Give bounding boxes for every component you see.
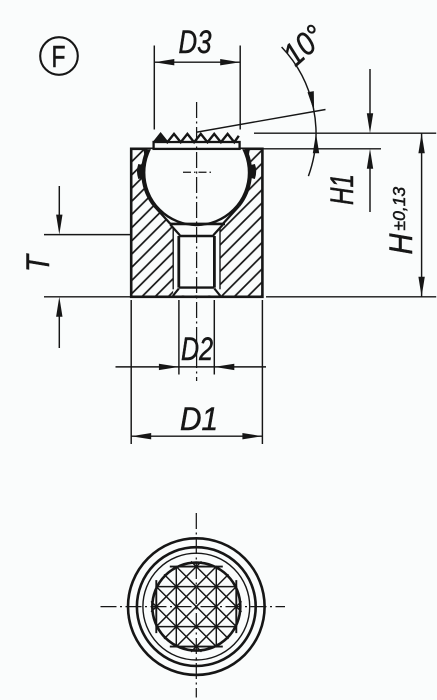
bottom chamfer right (214, 289, 220, 296)
serration teeth (154, 134, 239, 142)
serrated plate (154, 142, 240, 149)
bottom chamfer left (173, 289, 179, 296)
cavity (ball pocket + threaded bore, white) (142, 149, 251, 295)
cone seat left (154, 206, 171, 224)
arc arrow lower (onto horizontal line) (313, 133, 319, 153)
bore bottom line (179, 286, 215, 288)
svg-text:F: F (52, 39, 66, 74)
retainer crimp right (248, 164, 256, 179)
mesh diagonals SW-NE (151, 561, 241, 651)
pocket arc left (142, 149, 154, 206)
bottom view: outer circle (body) (128, 538, 265, 675)
pocket lip right (247, 149, 248, 157)
view label F (circled letter) (40, 37, 78, 75)
bottom view: serrated face circle (152, 563, 240, 651)
bore wall right (minor dia) (213, 236, 216, 288)
svg-text:H1: H1 (324, 174, 360, 205)
dimension angle 10deg (197, 18, 436, 176)
horizontal reference line (serration top extension) (254, 132, 436, 134)
mesh square edges (156, 567, 236, 647)
centermark horizontal (ball center) (183, 171, 211, 173)
pocket lip left (145, 149, 146, 157)
mesh verticals (176, 567, 216, 647)
cone seat right (223, 206, 240, 224)
thread start line (179, 235, 215, 237)
tilted tip-plane line (197, 110, 326, 133)
pocket arc right (239, 149, 251, 206)
bottom view vertical centerline (195, 513, 197, 698)
first tooth (filled) (154, 133, 168, 142)
centerline vertical (section view) (196, 102, 198, 381)
bottom view: second circle (137, 547, 256, 666)
dimension D2 (116, 300, 267, 375)
bottom view: third circle (thin) (143, 553, 250, 660)
svg-text:T: T (20, 253, 56, 272)
dimension D1 (131, 300, 262, 444)
bottom view horizontal centerline (101, 606, 286, 608)
retainer crimp left (137, 164, 145, 179)
serration mesh (top view of teeth) (151, 561, 241, 651)
dimension D3 (154, 24, 240, 130)
dimension H ±0,13 (266, 133, 436, 297)
bore wall left (minor dia) (177, 236, 180, 288)
mesh horizontals (156, 587, 236, 627)
seat flat line (170, 223, 225, 226)
svg-text:D1: D1 (180, 401, 218, 437)
mesh diagonals NW-SE (151, 561, 241, 651)
svg-text:D3: D3 (179, 24, 212, 60)
thread major line left (172, 229, 174, 290)
svg-text:D2: D2 (181, 331, 213, 367)
arc arrow upper (onto tilted line) (308, 91, 315, 111)
dimension T (20, 186, 131, 348)
thread major line right (219, 229, 221, 290)
dimension H1 (245, 69, 381, 212)
ball (144, 120, 249, 225)
thread chamfer left (170, 225, 180, 236)
body (hatched section block) (131, 149, 262, 297)
angle arc (282, 47, 316, 176)
thread chamfer right (213, 225, 223, 236)
